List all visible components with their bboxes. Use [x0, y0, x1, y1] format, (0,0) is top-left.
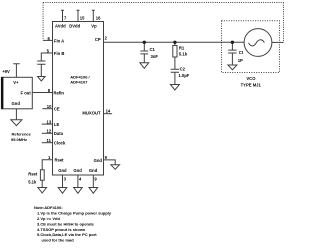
- wire: dotted RF feedback, top horizontal: [43, 2, 283, 4]
- svg-text:15: 15: [80, 16, 85, 21]
- svg-text:1.Vp is the Charge Pump power: 1.Vp is the Charge Pump power supply: [37, 211, 112, 216]
- svg-text:5.Clock,Data,LE via the PC por: 5.Clock,Data,LE via the PC port: [37, 232, 97, 237]
- wire: Ct branch in VCO box: [231, 42, 233, 50]
- resistor Rset 5.1k: [40, 170, 44, 180]
- wire: VCO output to feedback: [272, 41, 284, 43]
- svg-text:used for the load: used for the load: [42, 238, 75, 243]
- svg-text:5.1k: 5.1k: [179, 52, 188, 57]
- capacitor C1 3nF: [140, 51, 148, 63]
- svg-text:VCO: VCO: [246, 76, 256, 81]
- svg-text:11: 11: [47, 138, 52, 143]
- wire: pin 13 LE stub: [42, 123, 53, 125]
- svg-text:10: 10: [47, 104, 52, 109]
- svg-text:CE: CE: [54, 106, 60, 111]
- wire: pin 6 FinA: [43, 39, 52, 41]
- wire: R1 to C2: [174, 57, 176, 69]
- IC U1 ADF4106/ADF4107 body: [53, 22, 104, 176]
- wire: pin 1 Rset: [42, 160, 52, 170]
- svg-text:2.Vp >= Vdd: 2.Vp >= Vdd: [37, 216, 60, 221]
- wire: right side Gnd pin: [104, 160, 116, 165]
- ground pin 9: [89, 188, 98, 194]
- wire: C1 branch: [143, 42, 145, 51]
- ground under Ct: [228, 65, 237, 70]
- ground pin 3: [58, 188, 67, 194]
- node: junction dot at Ct: [231, 41, 234, 44]
- svg-text:Gnd: Gnd: [94, 158, 103, 163]
- capacitor Ct: [228, 50, 236, 65]
- svg-text:Fin A: Fin A: [54, 38, 64, 43]
- ground right side: [111, 165, 120, 170]
- wire: pin 11 Clock stub: [42, 142, 53, 144]
- svg-text:AVdd: AVdd: [55, 24, 66, 29]
- svg-text:Reference: Reference: [12, 131, 32, 136]
- wire: pin 9 Gnd bottom stub: [92, 175, 94, 188]
- ground pin 4: [74, 188, 83, 194]
- wire: dotted RF feedback, left vertical: [42, 3, 44, 41]
- wire: Rset resistor to ground: [41, 180, 43, 187]
- svg-text:Rset: Rset: [28, 171, 38, 176]
- node: junction dot at C1: [143, 41, 146, 44]
- svg-text:TYPE MJ1: TYPE MJ1: [241, 82, 262, 87]
- svg-text:Clock: Clock: [54, 140, 66, 145]
- ground under C1: [140, 63, 149, 69]
- ground under Rset resistor: [38, 188, 47, 194]
- svg-text:F out: F out: [21, 90, 32, 95]
- ground under oscillator: [11, 120, 22, 126]
- ground under FinB capacitor: [38, 77, 46, 82]
- oscillator box thick left edge: [1, 77, 3, 109]
- svg-text:Vp: Vp: [91, 24, 97, 29]
- pin 16 Vp power stub: [92, 10, 95, 21]
- svg-text:+9V: +9V: [2, 69, 10, 74]
- svg-text:CP: CP: [95, 37, 101, 42]
- svg-text:5.1k: 5.1k: [28, 179, 37, 184]
- svg-text:4.TSSOP pinout is shown: 4.TSSOP pinout is shown: [37, 227, 86, 232]
- svg-text:3nF: 3nF: [151, 54, 159, 59]
- svg-text:Ct: Ct: [239, 50, 244, 55]
- svg-text:Note:ADF4106:: Note:ADF4106:: [34, 205, 63, 210]
- svg-text:Gnd: Gnd: [12, 101, 21, 106]
- pin 15 DVdd power stub: [77, 10, 80, 21]
- svg-text:1.0µF: 1.0µF: [178, 73, 189, 78]
- wire: R1 branch: [174, 42, 176, 45]
- svg-text:3.CE must be HIGH to operate: 3.CE must be HIGH to operate: [37, 221, 95, 226]
- svg-text:Gnd: Gnd: [58, 168, 67, 173]
- sine symbol inside VCO: [249, 40, 265, 46]
- pin 7 AVdd power stub: [61, 10, 64, 21]
- capacitor on FinB: [37, 61, 45, 77]
- svg-text:DVdd: DVdd: [69, 24, 80, 29]
- svg-text:C2: C2: [180, 66, 186, 71]
- oscillator box reference: [1, 77, 32, 109]
- svg-text:V+: V+: [13, 80, 19, 85]
- svg-text:R1: R1: [179, 46, 185, 51]
- wire: pin 3 Gnd bottom stub: [62, 175, 64, 188]
- wire: dotted RF feedback, right vertical: [283, 3, 285, 43]
- svg-text:95.0MHz: 95.0MHz: [11, 137, 27, 142]
- svg-text:16: 16: [96, 16, 101, 21]
- svg-text:ADF4107: ADF4107: [70, 79, 88, 84]
- wire: pin 5 FinB: [41, 53, 52, 61]
- wire: pin 10 CE stub: [42, 108, 52, 110]
- resistor R1 5.1k: [173, 46, 177, 58]
- node: junction dot at R1: [173, 41, 176, 44]
- svg-text:Refin: Refin: [54, 91, 65, 96]
- wire: pin 2 CP to VCO: [104, 41, 245, 43]
- svg-text:14: 14: [106, 109, 111, 114]
- VCO module dashed box: [222, 21, 280, 73]
- power stub for oscillator V+: [13, 64, 20, 78]
- capacitor C2 1.0uF: [171, 69, 179, 84]
- wire: pin 4 Gnd bottom stub: [77, 175, 79, 188]
- wire: pin 14 MUXOUT stub: [104, 113, 113, 115]
- wire: oscillator ground: [15, 109, 17, 120]
- wire: pin 12 Data stub: [42, 132, 53, 134]
- svg-text:Fin B: Fin B: [54, 51, 64, 56]
- svg-text:Data: Data: [54, 131, 64, 136]
- svg-text:C1: C1: [150, 47, 156, 52]
- ground under C2: [170, 85, 179, 91]
- svg-text:13: 13: [47, 119, 52, 124]
- svg-text:MUXOUT: MUXOUT: [82, 111, 101, 116]
- svg-text:Gnd: Gnd: [89, 168, 98, 173]
- VCO oscillator circle: [244, 29, 272, 57]
- wire: pin 8 Refin from oscillator: [32, 92, 52, 94]
- svg-text:12: 12: [47, 128, 52, 133]
- svg-text:Gnd: Gnd: [73, 168, 82, 173]
- svg-text:1P: 1P: [238, 58, 243, 63]
- svg-text:LE: LE: [54, 122, 60, 127]
- svg-text:Rset: Rset: [55, 157, 65, 162]
